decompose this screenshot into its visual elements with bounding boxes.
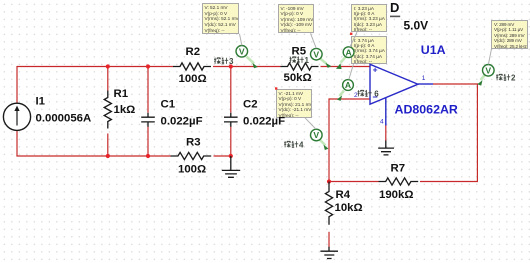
svg-text:10kΩ: 10kΩ	[335, 202, 363, 214]
svg-text:V: V	[313, 49, 319, 59]
svg-text:4: 4	[299, 141, 304, 150]
svg-text:I1: I1	[36, 96, 46, 108]
svg-text:D: D	[390, 0, 399, 15]
svg-text:V: V	[313, 130, 319, 140]
svg-text:1: 1	[305, 56, 310, 65]
svg-text:0.022µF: 0.022µF	[161, 116, 203, 128]
svg-text:U1A: U1A	[421, 43, 446, 57]
svg-text:V: V	[239, 46, 245, 56]
svg-text:R3: R3	[186, 136, 201, 148]
svg-text:A: A	[345, 80, 351, 90]
svg-text:C2: C2	[243, 99, 258, 111]
svg-text:2: 2	[511, 74, 516, 83]
svg-text:50kΩ: 50kΩ	[284, 72, 312, 84]
svg-text:5.0V: 5.0V	[404, 19, 429, 33]
svg-text:R7: R7	[391, 163, 406, 175]
svg-text:1kΩ: 1kΩ	[114, 104, 136, 116]
svg-text:2: 2	[354, 92, 358, 99]
svg-text:V: V	[485, 65, 491, 75]
svg-text:R1: R1	[114, 88, 129, 100]
svg-text:190kΩ: 190kΩ	[379, 189, 413, 201]
svg-text:1: 1	[422, 75, 426, 82]
svg-text:3: 3	[229, 57, 234, 66]
svg-text:100Ω: 100Ω	[179, 73, 207, 85]
svg-text:0.000056A: 0.000056A	[36, 113, 92, 125]
svg-text:R2: R2	[186, 46, 201, 58]
svg-text:A: A	[345, 47, 351, 57]
svg-text:6: 6	[374, 90, 379, 99]
svg-text:0.022µF: 0.022µF	[243, 116, 285, 128]
svg-text:C1: C1	[161, 99, 176, 111]
svg-text:AD8062AR: AD8062AR	[395, 103, 458, 117]
svg-text:R4: R4	[336, 189, 351, 201]
svg-text:4: 4	[380, 119, 384, 126]
svg-text:100Ω: 100Ω	[178, 164, 206, 176]
svg-text:+: +	[373, 64, 378, 74]
